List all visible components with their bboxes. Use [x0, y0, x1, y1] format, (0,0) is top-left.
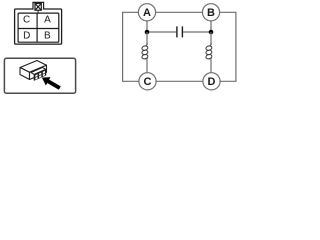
connector pinout outer box — [15, 9, 62, 44]
svg-text:D: D — [208, 76, 216, 88]
plug body front face — [30, 65, 47, 79]
insertion arrow — [42, 77, 61, 90]
pin grid 2x2 — [18, 13, 59, 42]
plug icon frame — [4, 58, 75, 93]
wire junction to coil right — [210, 32, 212, 45]
circuit outer loop wire — [123, 12, 236, 81]
terminal D — [203, 73, 220, 90]
wire B to junction — [210, 21, 212, 32]
svg-text:A: A — [44, 14, 51, 25]
svg-text:C: C — [23, 14, 30, 25]
inductor coil right — [205, 43, 212, 60]
svg-text:B: B — [207, 7, 215, 19]
plug body left end face — [20, 68, 30, 80]
plug socket block top — [31, 67, 46, 80]
plug socket face with pin holes — [34, 69, 46, 80]
wire junction to coil left — [146, 32, 148, 45]
keying tab notch — [33, 2, 44, 9]
wire coil to D — [210, 58, 212, 73]
terminal A — [138, 4, 155, 21]
svg-text:D: D — [23, 30, 30, 41]
capacitor plates — [177, 26, 183, 37]
plug body top face — [20, 61, 47, 80]
inductor coil left — [141, 43, 148, 60]
svg-text:B: B — [44, 30, 51, 41]
keyed index box with X — [35, 4, 41, 14]
svg-text:A: A — [143, 7, 151, 19]
wire A to junction — [146, 21, 148, 32]
wire coil to C — [146, 58, 148, 73]
terminal B — [202, 4, 219, 21]
capacitor lead right — [183, 31, 211, 33]
junction dot right — [209, 30, 214, 35]
junction dot left — [145, 30, 150, 35]
svg-text:C: C — [144, 76, 152, 88]
terminal C — [139, 73, 156, 90]
capacitor lead left — [147, 31, 176, 33]
